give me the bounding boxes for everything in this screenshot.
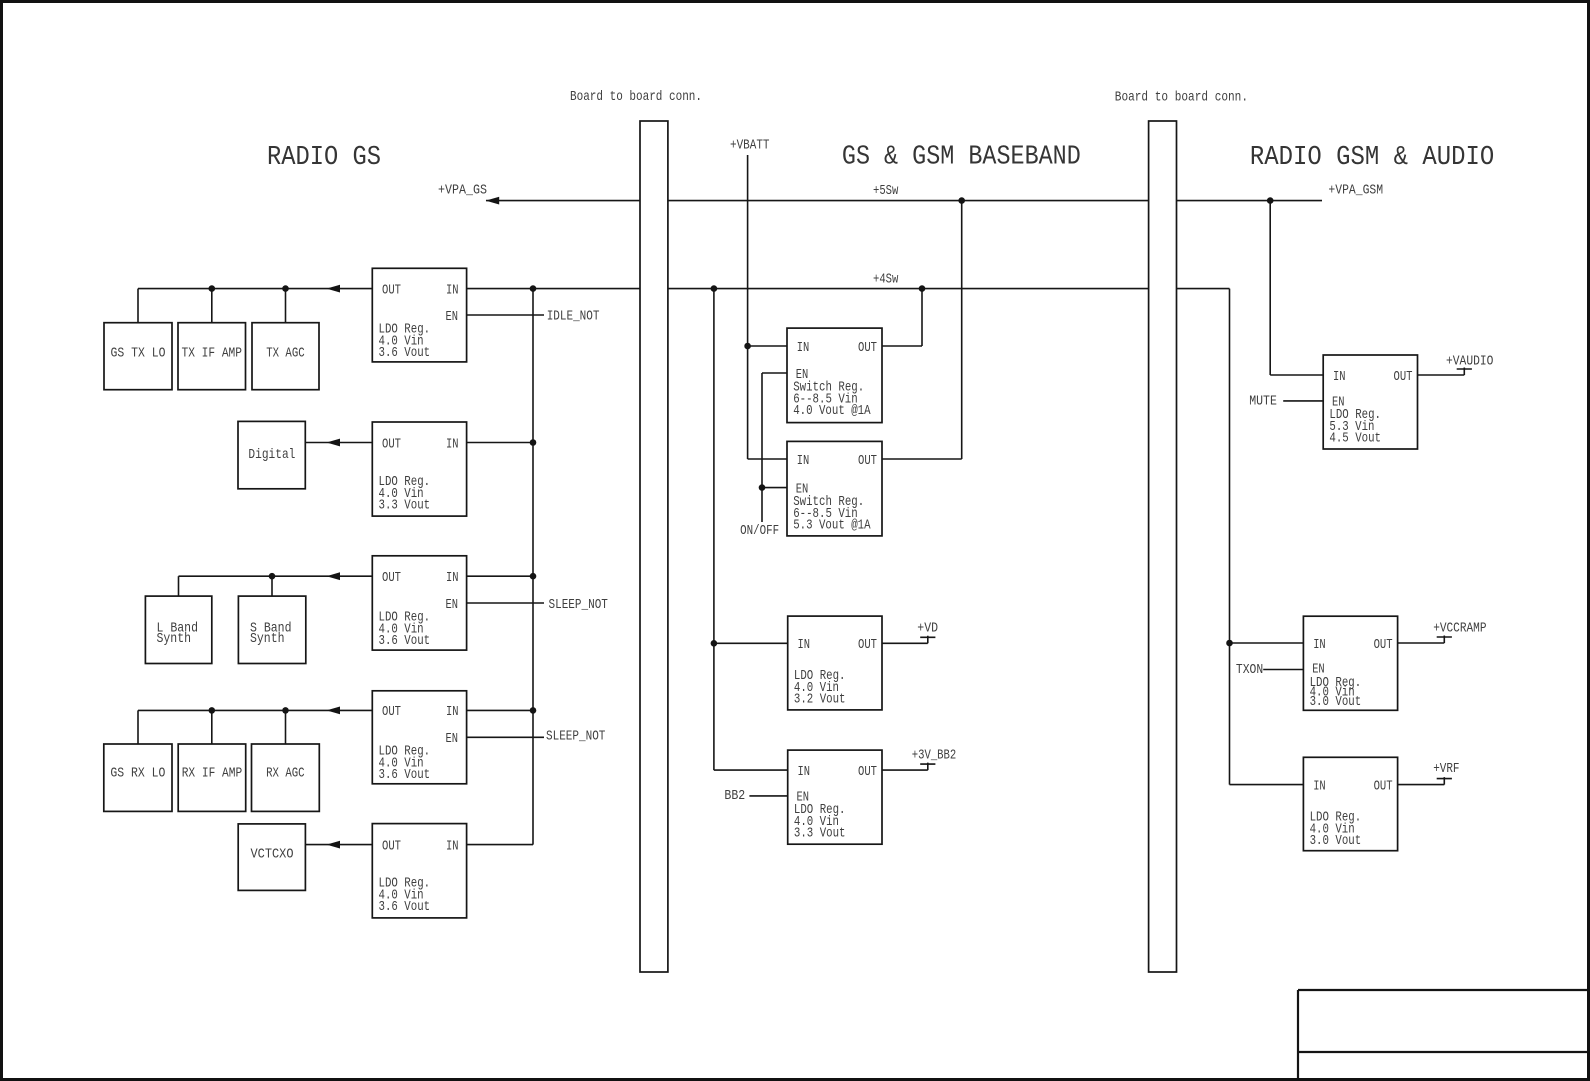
wire U11 EN (TXON) stub <box>1263 669 1303 671</box>
LDO regulator U9 (4.0 Vin 3.3 Vout) <box>788 750 882 844</box>
svg-text:OUT: OUT <box>382 838 401 854</box>
svg-text:RX AGC: RX AGC <box>266 766 305 782</box>
arrowhead row5 flow arrow <box>327 841 341 849</box>
svg-text:Synth: Synth <box>250 631 285 647</box>
junction x533 at +4Sw <box>530 285 537 292</box>
junction row3 at S Band Synth <box>269 573 276 580</box>
wire drop to TX AGC <box>285 289 287 323</box>
wire U10 EN (MUTE) stub <box>1283 400 1323 402</box>
svg-text:3.0 Vout: 3.0 Vout <box>1310 694 1362 710</box>
svg-text:OUT: OUT <box>382 436 401 452</box>
wire U11 IN stub <box>1230 642 1304 644</box>
svg-text:IN: IN <box>446 704 459 720</box>
svg-text:3.2 Vout: 3.2 Vout <box>794 692 846 708</box>
svg-text:OUT: OUT <box>858 340 877 356</box>
junction +VBATT at U6 IN <box>744 343 751 350</box>
wire drop to S Band Synth <box>271 576 273 596</box>
block load TX IF AMP <box>178 323 246 390</box>
wire drop to RX IF AMP <box>211 710 213 744</box>
svg-text:3.6 Vout: 3.6 Vout <box>379 345 431 361</box>
svg-text:GS & GSM BASEBAND: GS & GSM BASEBAND <box>842 143 1081 173</box>
svg-text:3.0 Vout: 3.0 Vout <box>1310 833 1362 849</box>
wire U6 IN stub <box>748 345 787 347</box>
svg-text:+VPA_GSM: +VPA_GSM <box>1328 183 1383 199</box>
wire U6 OUT riser to +4Sw <box>921 289 923 346</box>
LDO regulator U1 (4.0 Vin 3.6 Vout) <box>372 268 466 362</box>
wire U3 OUT rail row3 <box>179 575 373 577</box>
junction +4Sw branch x=714 <box>711 285 718 292</box>
junction ON/OFF at U7 EN <box>759 484 766 491</box>
svg-text:IN: IN <box>1313 778 1326 794</box>
wire U9 IN stub <box>714 769 788 771</box>
junction row4 at RX AGC <box>282 707 289 714</box>
svg-text:OUT: OUT <box>382 282 401 298</box>
svg-text:MUTE: MUTE <box>1249 394 1277 410</box>
junction row1 at TX AGC <box>282 285 289 292</box>
junction x533 at U2 IN <box>530 439 537 446</box>
block load GS TX LO <box>104 323 172 390</box>
LDO regulator U12 VRF (4.0 Vin 3.0 Vout) <box>1303 757 1397 850</box>
LDO regulator U10 audio (5.3 Vin 4.5 Vout) <box>1323 355 1417 449</box>
svg-text:TXON: TXON <box>1236 662 1263 678</box>
power symbol +VRF tap <box>1437 777 1452 785</box>
wire drop to RX AGC <box>285 710 287 744</box>
svg-text:OUT: OUT <box>858 453 877 469</box>
svg-text:OUT: OUT <box>1374 637 1393 653</box>
wire +4Sw right vertical x=1229 <box>1229 289 1231 785</box>
wire drop to TX IF AMP <box>211 289 213 323</box>
LDO regulator U8 (4.0 Vin 3.2 Vout) <box>788 616 882 710</box>
svg-text:3.6 Vout: 3.6 Vout <box>379 767 431 783</box>
svg-text:RX IF AMP: RX IF AMP <box>182 766 243 782</box>
LDO regulator U3 (4.0 Vin 3.6 Vout) <box>372 556 466 650</box>
wire +4Sw branch vertical x=714 <box>713 289 715 770</box>
svg-text:GS RX LO: GS RX LO <box>110 766 165 782</box>
svg-text:GS TX LO: GS TX LO <box>111 346 166 362</box>
junction row1 at TX IF AMP <box>209 285 216 292</box>
wire +5Sw rail between connectors <box>668 200 1149 202</box>
svg-text:IN: IN <box>1313 637 1326 653</box>
svg-text:IN: IN <box>797 340 810 356</box>
LDO regulator U4 (4.0 Vin 3.6 Vout) <box>372 691 466 784</box>
wire U3 IN stub <box>467 575 533 577</box>
title block <box>1298 990 1587 1078</box>
junction x1229 at U11 IN <box>1226 640 1233 647</box>
svg-text:OUT: OUT <box>382 570 401 586</box>
wire U7 IN stub <box>748 458 787 460</box>
switch regulator U7 (6--8.5 Vin 5.3 Vout @1A) <box>787 441 882 536</box>
switch regulator U6 (6--8.5 Vin 4.0 Vout @1A) <box>787 328 882 423</box>
svg-text:5.3 Vout @1A: 5.3 Vout @1A <box>793 517 871 533</box>
block load VCTCXO <box>238 824 305 891</box>
wire U10 IN stub <box>1270 374 1323 376</box>
svg-text:IN: IN <box>446 282 459 298</box>
svg-text:SLEEP_NOT: SLEEP_NOT <box>546 728 605 744</box>
LDO regulator U11 VCCRAMP (4.0 Vin 3.0 Vout) <box>1303 616 1397 710</box>
svg-text:EN: EN <box>446 731 459 747</box>
wire U1 OUT rail row1 <box>138 288 372 290</box>
junction +VPA_GSM branch <box>1267 197 1274 204</box>
wire U2 IN stub <box>467 442 533 444</box>
wire U6 OUT stub <box>882 345 922 347</box>
LDO regulator U5 (4.0 Vin 3.6 Vout) <box>372 824 466 918</box>
svg-text:3.6 Vout: 3.6 Vout <box>379 633 431 649</box>
svg-text:+VBATT: +VBATT <box>730 138 770 154</box>
svg-text:+VD: +VD <box>917 621 938 637</box>
wire U12 IN stub <box>1230 784 1304 786</box>
wire +VBATT vertical <box>747 155 749 459</box>
block load S Band Synth <box>238 596 305 663</box>
svg-text:TX AGC: TX AGC <box>266 346 305 362</box>
svg-text:RADIO GSM & AUDIO: RADIO GSM & AUDIO <box>1250 143 1494 173</box>
wire +4Sw rail between connectors <box>668 288 1149 290</box>
svg-text:EN: EN <box>446 309 459 325</box>
wire +VPA_GSM rail <box>1177 200 1323 202</box>
wire ON/OFF vertical <box>761 373 763 522</box>
wire U7 EN stub <box>762 487 787 489</box>
svg-text:IN: IN <box>446 570 459 586</box>
svg-text:+5Sw: +5Sw <box>873 183 899 199</box>
svg-text:IN: IN <box>797 453 810 469</box>
wire U4 OUT rail row4 <box>138 709 372 711</box>
wire U1 EN stub <box>467 314 544 316</box>
wire U8 OUT stub <box>882 642 928 644</box>
junction x533 at U4 IN <box>530 707 537 714</box>
wire U12 OUT stub <box>1398 784 1445 786</box>
wire BB2 EN stub <box>749 795 787 797</box>
svg-text:OUT: OUT <box>1394 369 1413 385</box>
block load L Band Synth <box>145 596 211 663</box>
wire U6 EN stub <box>762 372 787 374</box>
arrowhead row1 flow arrow <box>327 285 341 293</box>
power symbol +VD tap <box>920 636 935 644</box>
svg-text:3.3 Vout: 3.3 Vout <box>379 498 431 514</box>
wire drop to GS TX LO <box>137 289 139 323</box>
svg-text:3.6 Vout: 3.6 Vout <box>379 899 431 915</box>
wire +4Sw to U1 IN <box>467 288 640 290</box>
svg-text:+3V_BB2: +3V_BB2 <box>912 748 956 764</box>
wire U11 OUT stub <box>1398 642 1445 644</box>
LDO regulator U2 (4.0 Vin 3.3 Vout) <box>372 422 466 516</box>
power symbol +3V_BB2 tap <box>920 763 935 771</box>
wire U7 OUT stub <box>882 458 962 460</box>
svg-text:4.5 Vout: 4.5 Vout <box>1329 431 1381 447</box>
wire audio branch vertical x=1270 <box>1269 201 1271 375</box>
arrowhead +VPA_GS arrow <box>486 197 500 205</box>
wire U8 IN stub <box>714 642 788 644</box>
block load RX AGC <box>252 744 320 811</box>
wire U7 OUT riser to +5Sw <box>961 201 963 459</box>
junction branch at U8 IN <box>711 640 718 647</box>
junction row4 at RX IF AMP <box>209 707 216 714</box>
arrowhead row2 flow arrow <box>327 439 341 447</box>
svg-text:IN: IN <box>446 838 459 854</box>
wire drop to L Band Synth <box>178 576 180 596</box>
wire +VPA_GS feed (y=200) <box>486 200 640 202</box>
svg-text:IDLE_NOT: IDLE_NOT <box>547 309 600 325</box>
wire drop to GS RX LO <box>137 710 139 744</box>
svg-text:+VCCRAMP: +VCCRAMP <box>1433 621 1486 637</box>
wire U4 EN stub <box>467 736 544 738</box>
svg-text:IN: IN <box>798 764 811 780</box>
svg-text:+VAUDIO: +VAUDIO <box>1446 354 1493 370</box>
svg-text:+VPA_GS: +VPA_GS <box>438 182 487 198</box>
wire U3 EN stub <box>467 602 544 604</box>
svg-text:Synth: Synth <box>157 631 192 647</box>
junction +4Sw at U6 OUT <box>919 285 926 292</box>
svg-text:EN: EN <box>446 597 459 613</box>
power symbol +VCCRAMP tap <box>1437 636 1452 644</box>
svg-text:OUT: OUT <box>858 764 877 780</box>
wire U5 OUT to VCTCXO <box>305 844 372 846</box>
arrowhead row4 flow arrow <box>327 707 341 715</box>
svg-text:Board to board conn.: Board to board conn. <box>1115 89 1248 105</box>
svg-text:VCTCXO: VCTCXO <box>251 847 294 863</box>
svg-text:OUT: OUT <box>858 637 877 653</box>
board-to-board connector J1 (left) <box>640 121 668 972</box>
svg-text:3.3 Vout: 3.3 Vout <box>794 826 846 842</box>
wire U2 OUT to Digital <box>306 442 373 444</box>
block load TX AGC <box>252 323 319 390</box>
power symbol +VAUDIO tap <box>1457 368 1472 376</box>
wire U4 IN stub <box>467 709 533 711</box>
board-to-board connector J2 (right) <box>1149 121 1177 972</box>
svg-text:SLEEP_NOT: SLEEP_NOT <box>549 597 608 613</box>
svg-text:+4Sw: +4Sw <box>873 271 899 287</box>
svg-text:IN: IN <box>798 637 811 653</box>
svg-text:4.0 Vout @1A: 4.0 Vout @1A <box>793 403 871 419</box>
svg-text:Digital: Digital <box>248 447 295 463</box>
svg-text:ON/OFF: ON/OFF <box>740 523 779 539</box>
wire U5 IN stub <box>467 844 533 846</box>
svg-text:OUT: OUT <box>1374 778 1393 794</box>
wire +4Sw right stub <box>1177 288 1230 290</box>
block load RX IF AMP <box>178 744 246 811</box>
wire U9 OUT stub <box>882 769 928 771</box>
svg-text:IN: IN <box>446 436 459 452</box>
block load Digital <box>238 421 305 488</box>
svg-text:IN: IN <box>1333 369 1346 385</box>
svg-text:RADIO GS: RADIO GS <box>267 143 381 173</box>
wire +4Sw distribution vertical x=533 <box>532 289 534 845</box>
block load GS RX LO <box>104 744 172 811</box>
arrowhead row3 flow arrow <box>327 572 341 580</box>
svg-text:OUT: OUT <box>382 704 401 720</box>
svg-text:+VRF: +VRF <box>1433 761 1459 777</box>
svg-text:BB2: BB2 <box>724 788 745 804</box>
wire U10 OUT stub <box>1418 374 1465 376</box>
junction +5Sw at U7 OUT <box>958 197 965 204</box>
junction x533 at U3 IN <box>530 573 537 580</box>
svg-text:Board to board conn.: Board to board conn. <box>570 89 702 105</box>
svg-text:TX IF AMP: TX IF AMP <box>182 346 243 362</box>
